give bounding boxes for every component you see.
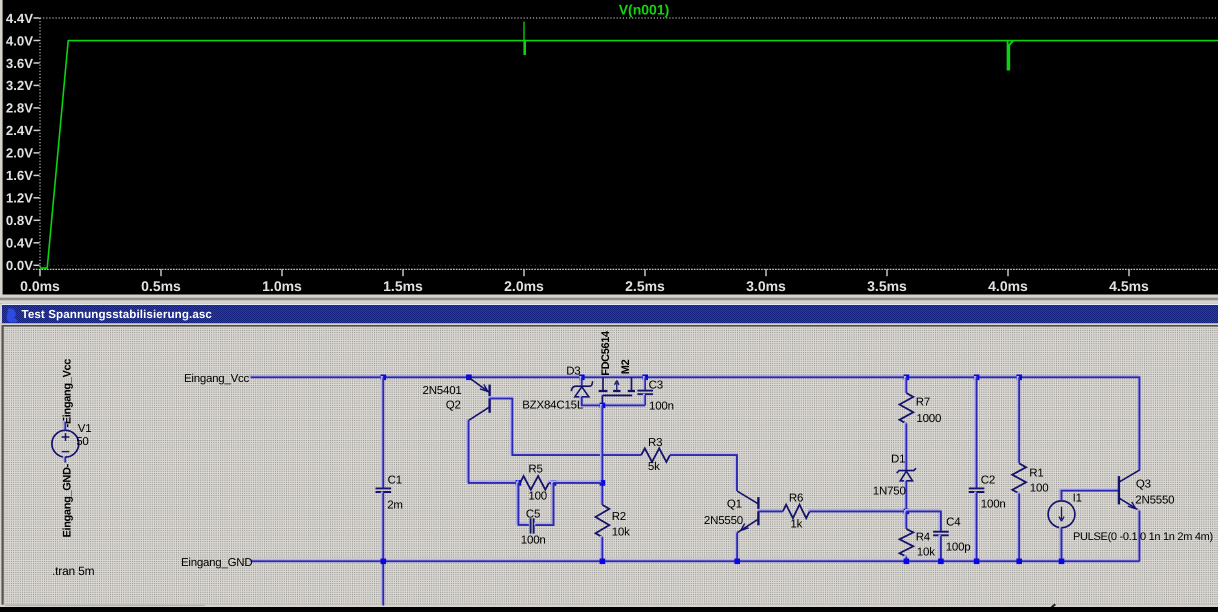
Q2 collector diagonal: [469, 407, 489, 420]
wire R7 to D1 cathode: [905, 422, 906, 470]
left axis frame dotted: [39, 18, 41, 276]
mosfet M2 source stub left: [602, 377, 604, 390]
svg-text:2m: 2m: [387, 499, 403, 511]
junction top rail / Q2 emitter: [466, 375, 472, 381]
svg-text:4.5ms: 4.5ms: [1109, 278, 1149, 294]
wire top rail to R7: [905, 376, 906, 393]
wire R6 to divider node: [808, 510, 906, 511]
zener diode D1 1N750: [897, 468, 916, 473]
svg-text:1k: 1k: [790, 519, 802, 531]
junction top rail / C3: [642, 375, 648, 381]
svg-text:D3: D3: [566, 366, 580, 378]
svg-text:4.4V: 4.4V: [6, 11, 33, 26]
trace spike up at 2.0ms: [523, 22, 525, 41]
svg-text:100n: 100n: [981, 499, 1006, 511]
svg-text:Eingang_GND-: Eingang_GND-: [61, 463, 73, 537]
wire Eingang_Vcc top rail and right drop to Q3 collector: [249, 376, 1139, 470]
voltage source V1 body: [52, 430, 79, 457]
y-axis tick 3.2V: [34, 84, 40, 86]
svg-text:3.6V: 3.6V: [6, 56, 33, 71]
svg-text:3.2V: 3.2V: [6, 78, 33, 93]
svg-text:1.5ms: 1.5ms: [383, 278, 423, 294]
svg-text:Q3: Q3: [1136, 479, 1151, 491]
svg-text:Eingang_Vcc: Eingang_Vcc: [184, 373, 250, 385]
svg-text:1.0ms: 1.0ms: [262, 278, 302, 294]
y-axis tick 0.4V: [34, 242, 40, 244]
junction bottom rail / Q1 emitter: [734, 559, 740, 565]
Q1 emitter arrow (NPN, pointing out): [741, 524, 749, 531]
svg-text:4.0V: 4.0V: [6, 33, 33, 48]
wire D1 anode to divider node: [905, 479, 906, 511]
wire C3 bottom lead: [644, 394, 645, 406]
wire R3 to Q1 collector: [669, 454, 737, 491]
svg-text:1.2V: 1.2V: [6, 191, 33, 206]
wire divider node to C4: [905, 510, 941, 532]
M2 body arrow: [615, 380, 619, 390]
x-axis tick 2.0ms: [523, 269, 525, 276]
svg-text:2.0ms: 2.0ms: [504, 278, 544, 294]
svg-text:2N5550: 2N5550: [704, 515, 743, 527]
Q1 collector diagonal: [737, 491, 758, 504]
wire top rail to R1: [1018, 376, 1019, 463]
svg-text:100n: 100n: [521, 535, 546, 547]
resistor R4: [900, 529, 914, 557]
svg-text:.tran 5m: .tran 5m: [52, 564, 95, 578]
svg-text:C4: C4: [946, 517, 961, 529]
junction bottom rail / R4: [904, 559, 910, 565]
wire D3 anode to gate node and C3 bottom: [580, 395, 645, 405]
svg-text:V1: V1: [78, 423, 92, 435]
top gridline 4.4V: [40, 17, 1218, 19]
x-axis tick 2.5ms: [644, 269, 646, 276]
capacitor C5: [531, 518, 534, 533]
wire gate node down through R5 node to R2: [601, 404, 602, 505]
Q2 emitter arrow (PNP, pointing into base): [480, 384, 488, 391]
svg-text:R3: R3: [648, 437, 662, 449]
wire C4 to bottom rail: [940, 535, 941, 561]
x-axis tick 1.0ms: [281, 269, 283, 276]
capacitor C3: [637, 391, 653, 395]
V1 plus sign: [62, 433, 70, 441]
strip below title bar: [0, 323, 1218, 325]
schematic window title bar: [2, 305, 1218, 323]
x-axis tick 0.0ms: [39, 269, 41, 276]
svg-text:2.4V: 2.4V: [6, 123, 33, 138]
y-axis tick 0.8V: [34, 219, 40, 221]
I1 arrow: [1059, 507, 1064, 521]
svg-text:0.8V: 0.8V: [6, 213, 33, 228]
bottom time axis: [33, 268, 1218, 270]
wire R4 to bottom rail: [905, 555, 906, 561]
svg-text:Test Spannungsstabilisierung.a: Test Spannungsstabilisierung.asc: [22, 308, 213, 321]
junction top rail / C2: [974, 375, 980, 381]
schematic window title bar highlight: [2, 303, 1218, 305]
svg-text:PULSE(0 -0.1 0 1n 1n 2m 4m): PULSE(0 -0.1 0 1n 1n 2m 4m): [1073, 531, 1213, 543]
svg-text:I1: I1: [1073, 493, 1082, 505]
svg-text:1N750: 1N750: [873, 486, 906, 498]
x-axis tick 3.5ms: [886, 269, 888, 276]
y-axis tick 2.0V: [34, 152, 40, 154]
svg-text:100p: 100p: [946, 542, 971, 554]
junction bottom rail / I1: [1059, 559, 1065, 565]
wire C2 to bottom rail: [975, 492, 976, 562]
wire top rail to C1: [382, 376, 383, 488]
wire Eingang_GND bottom rail: [249, 560, 1139, 561]
wire R5 left node down to C5 left plate: [517, 482, 529, 525]
y-axis tick 4.4V: [34, 17, 40, 19]
M2 source contact bar: [599, 390, 608, 392]
y-axis tick 3.6V: [34, 62, 40, 64]
wire Q3 emitter to bottom rail end: [1138, 509, 1139, 561]
x-axis tick 3.0ms: [765, 269, 767, 276]
trace dip at 4.0ms: [1008, 41, 1014, 70]
M2 drain stub right: [631, 377, 633, 390]
resistor R5: [520, 476, 549, 490]
junction R5 right: [551, 480, 557, 486]
wire Q1 emitter to bottom rail: [736, 531, 737, 561]
resistor R3: [641, 448, 670, 462]
bottom window strip: [0, 605, 1218, 607]
svg-text:1000: 1000: [916, 413, 941, 425]
svg-text:3.0ms: 3.0ms: [746, 278, 786, 294]
svg-text:1.6V: 1.6V: [6, 168, 33, 183]
waveform plot pane background: [0, 0, 1218, 295]
svg-text:D1: D1: [891, 454, 905, 466]
svg-text:2.5ms: 2.5ms: [625, 278, 665, 294]
svg-text:FDC5614: FDC5614: [600, 330, 612, 376]
svg-text:100n: 100n: [649, 401, 674, 413]
y-axis tick 0.0V: [34, 264, 40, 266]
svg-text:4.0ms: 4.0ms: [988, 278, 1028, 294]
y-axis tick 4.0V: [34, 40, 40, 42]
junction top rail / R1: [1016, 375, 1022, 381]
svg-text:Q1: Q1: [727, 499, 742, 511]
svg-text:3.5ms: 3.5ms: [867, 278, 907, 294]
svg-text:0.0V: 0.0V: [6, 258, 33, 273]
Q3 emitter arrow (NPN, pointing out): [1128, 502, 1136, 509]
wire C5 right plate up to R5 right node: [534, 482, 554, 526]
svg-text:50: 50: [76, 436, 88, 448]
M2 gate bar: [602, 394, 632, 396]
junction top rail / R7: [904, 375, 910, 381]
svg-text:2N5550: 2N5550: [1135, 494, 1174, 506]
svg-text:Q2: Q2: [446, 400, 461, 412]
junction divider node: [904, 509, 910, 515]
svg-text:M2: M2: [620, 359, 632, 374]
current source I1 body: [1048, 501, 1075, 528]
svg-text:C1: C1: [388, 475, 402, 487]
svg-text:2.0V: 2.0V: [6, 146, 33, 161]
wire divider node to R4: [905, 510, 906, 529]
y-axis tick 2.4V: [34, 129, 40, 131]
faint 0V gridline: [40, 264, 1218, 266]
trace V(n001) main: [40, 41, 1218, 269]
resistor R6: [783, 505, 810, 519]
svg-text:0.5ms: 0.5ms: [141, 278, 181, 294]
svg-text:2.8V: 2.8V: [6, 101, 33, 116]
junction bottom rail / C2: [974, 559, 980, 565]
svg-text:R6: R6: [789, 493, 803, 505]
junction bottom rail / R1: [1016, 559, 1022, 565]
junction R5 left: [516, 480, 522, 486]
V1 minus sign: [62, 451, 70, 453]
Q3 collector diagonal: [1119, 470, 1139, 482]
x-axis tick 4.0ms: [1007, 269, 1009, 276]
x-axis tick 4.5ms: [1128, 269, 1130, 276]
svg-text:-Eingang_Vcc: -Eingang_Vcc: [61, 359, 73, 428]
x-axis tick 0.5ms: [160, 269, 162, 276]
junction gate node: [600, 403, 606, 409]
canvas top sunken border: [0, 325, 1218, 327]
svg-text:R4: R4: [916, 532, 931, 544]
wire top rail to D3 cathode: [580, 376, 581, 386]
svg-text:10k: 10k: [917, 547, 935, 559]
Q1 emitter diagonal: [737, 519, 758, 532]
zener diode D3 BZX84C15L: [571, 381, 592, 391]
wire R2 to bottom rail: [601, 536, 602, 561]
svg-text:R7: R7: [916, 397, 930, 409]
M2 gate lead down: [601, 395, 603, 405]
Q2 emitter diagonal from top rail: [470, 378, 490, 392]
title bar document icon: [7, 308, 18, 322]
Q3 emitter diagonal: [1119, 498, 1139, 510]
transistor Q1 base bar: [757, 497, 759, 525]
canvas left border: [0, 323, 2, 607]
svg-text:BZX84C15L: BZX84C15L: [522, 400, 584, 412]
x-axis tick 1.5ms: [402, 269, 404, 276]
wire stub R5 left: [517, 482, 520, 483]
svg-text:5k: 5k: [648, 461, 660, 473]
junction top rail / C1: [381, 375, 387, 381]
wire R1 to bottom rail: [1018, 492, 1019, 561]
svg-text:100: 100: [1030, 483, 1049, 495]
capacitor C1: [376, 488, 392, 492]
transistor Q2 base bar: [488, 385, 490, 413]
svg-text:C5: C5: [526, 509, 540, 521]
svg-text:V(n001): V(n001): [619, 2, 670, 18]
separator band below plot: [0, 295, 1218, 298]
wire top rail to C2: [975, 376, 976, 488]
wire below bottom rail at C1 column: [382, 560, 383, 606]
junction top rail / D3: [579, 375, 585, 381]
svg-text:C3: C3: [649, 380, 663, 392]
wire Q1 base to R6: [757, 510, 783, 511]
svg-text:100: 100: [528, 491, 547, 503]
wire R5 right to R2 column: [548, 482, 603, 483]
resistor R7: [900, 393, 914, 424]
M2 drain contact bar: [628, 390, 635, 392]
wire top rail to C3: [644, 376, 645, 391]
M2 body contact bar: [613, 390, 620, 392]
y-axis tick 1.2V: [34, 197, 40, 199]
transistor Q3 base bar: [1118, 476, 1120, 504]
svg-text:0.4V: 0.4V: [6, 236, 33, 251]
svg-text:2N5401: 2N5401: [423, 385, 462, 397]
capacitor C2: [969, 488, 985, 492]
svg-text:C2: C2: [981, 475, 995, 487]
svg-text:10k: 10k: [612, 526, 630, 538]
wire I1 top to Q3 base: [1060, 489, 1119, 501]
wire I1 to bottom rail: [1060, 526, 1061, 561]
capacitor C4: [933, 532, 949, 536]
svg-text:R2: R2: [612, 511, 626, 523]
resistor R1: [1012, 463, 1026, 493]
waveform window left border strip: [0, 0, 3, 295]
junction bottom rail / C4: [938, 559, 944, 565]
svg-text:R1: R1: [1029, 467, 1043, 479]
wire C1 to bottom rail: [382, 492, 383, 562]
junction bottom rail / C1: [381, 559, 387, 565]
trace spike down at 2.0ms: [523, 41, 526, 55]
y-axis tick 1.6V: [34, 174, 40, 176]
junction bottom rail / R2: [600, 559, 606, 565]
junction R5 right node / R2 column: [600, 480, 606, 486]
wire Q2 collector down to R5 node: [467, 419, 518, 483]
schematic canvas with grid dots: [4, 327, 1218, 605]
wire Q2 base to R3: [488, 397, 641, 455]
small corner mark bottom right: [1051, 604, 1057, 608]
svg-text:R5: R5: [528, 464, 542, 476]
svg-text:Eingang_GND: Eingang_GND: [181, 557, 252, 569]
y-axis tick 2.8V: [34, 107, 40, 109]
resistor R2: [596, 505, 610, 537]
wire V1 bottom lead: [64, 456, 65, 463]
svg-text:0.0ms: 0.0ms: [20, 278, 60, 294]
wire V1 top lead: [64, 420, 65, 430]
